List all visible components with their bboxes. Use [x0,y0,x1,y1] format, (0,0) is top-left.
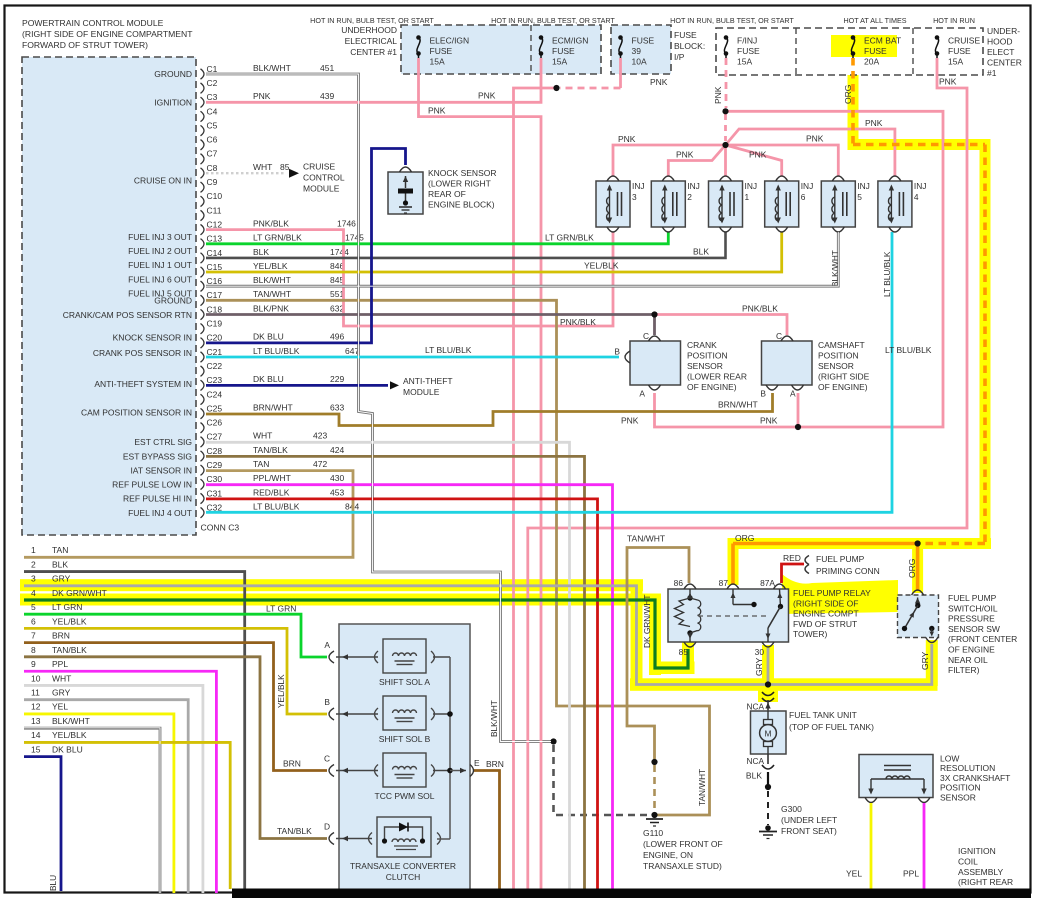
wire C28 TAN/BLK 424 [206,456,585,889]
svg-text:PNK/BLK: PNK/BLK [253,218,289,228]
wire C13 LT GRN/BLK 1745 to INJ2 [206,232,668,244]
svg-text:FUEL PUMP: FUEL PUMP [948,593,997,603]
svg-text:C3: C3 [207,92,218,102]
svg-text:PRESSURE: PRESSURE [948,614,995,624]
svg-text:(RIGHT REAR: (RIGHT REAR [958,877,1013,887]
svg-text:BRN/WHT: BRN/WHT [253,402,293,412]
fuel pump switch / oil pressure sensor [898,595,939,638]
svg-text:KNOCK SENSOR IN: KNOCK SENSOR IN [113,332,192,342]
svg-text:BRN: BRN [283,759,301,769]
bottom black censor bar [232,889,1031,898]
svg-text:C25: C25 [207,403,223,413]
svg-text:(RIGHT SIDE: (RIGHT SIDE [818,372,870,382]
wire C27 WHT 423 [206,442,570,889]
svg-text:C27: C27 [207,432,223,442]
relay coil + resistor [689,589,691,598]
wire C29 TAN 472 to row 1 [24,471,353,558]
svg-text:C19: C19 [207,319,223,329]
svg-text:FUEL TANK UNIT: FUEL TANK UNIT [789,710,857,720]
svg-text:MODULE: MODULE [403,387,440,397]
svg-text:SENSOR SW: SENSOR SW [948,624,1000,634]
svg-text:ANTI-THEFT SYSTEM IN: ANTI-THEFT SYSTEM IN [94,379,192,389]
wire GRY relay pin 30 drop [767,648,770,685]
wire C20 DK BLU 496 to knock sensor [206,149,406,343]
svg-text:NEAR OIL: NEAR OIL [948,655,988,665]
svg-text:INJ: INJ [914,181,927,191]
svg-text:BLK: BLK [693,247,709,257]
svg-text:CENTER #1: CENTER #1 [350,47,397,57]
svg-text:TAN/WHT: TAN/WHT [253,289,291,299]
svg-text:FUEL INJ 3 OUT: FUEL INJ 3 OUT [128,232,192,242]
svg-text:(LOWER FRONT OF: (LOWER FRONT OF [643,839,723,849]
svg-text:453: 453 [330,487,344,497]
solenoid SHIFT SOL A [383,639,426,673]
svg-text:FUSE: FUSE [674,30,697,40]
injector INJ 3 [596,181,630,227]
highlight: ORG dashed path from ECM BAT fuse [848,75,859,150]
svg-text:C16: C16 [207,276,223,286]
svg-text:REF PULSE LOW IN: REF PULSE LOW IN [112,480,192,490]
svg-text:MODULE: MODULE [303,184,340,194]
wire BRN from clutch pin E down [474,771,500,890]
svg-text:POSITION: POSITION [687,351,728,361]
svg-text:PNK: PNK [865,118,883,128]
wire ORG solid to relay 87 and oil switch [733,544,918,592]
svg-text:C29: C29 [207,460,223,470]
svg-text:LT GRN: LT GRN [266,604,296,614]
fuel pump relay [668,589,789,642]
svg-text:EST BYPASS SIG: EST BYPASS SIG [123,451,192,461]
svg-text:C18: C18 [207,304,223,314]
svg-text:PNK: PNK [760,416,778,426]
svg-text:C6: C6 [207,135,218,145]
svg-text:C8: C8 [207,163,218,173]
svg-text:FUEL INJ 4 OUT: FUEL INJ 4 OUT [128,508,192,518]
svg-text:PPL: PPL [52,659,68,669]
wire C21 LT BLU/BLK 647 to crank B [206,356,619,359]
svg-text:GROUND: GROUND [154,69,192,79]
svg-text:OF ENGINE): OF ENGINE) [818,382,868,392]
svg-text:FUSE: FUSE [948,46,971,56]
wire C8 WHT 85 to cruise control module [206,172,286,174]
svg-text:LT BLU/BLK: LT BLU/BLK [885,345,932,355]
svg-text:430: 430 [330,473,344,483]
svg-text:5: 5 [857,192,862,202]
svg-text:6: 6 [31,616,36,626]
svg-text:PNK: PNK [713,86,723,104]
highlight: DK GRN/WHT wire yellow band [20,594,661,606]
injector INJ 1 [709,181,743,227]
svg-text:B: B [614,347,620,357]
svg-text:SENSOR: SENSOR [818,361,854,371]
svg-text:D: D [324,822,330,832]
svg-text:451: 451 [320,63,334,73]
svg-text:15A: 15A [552,57,567,67]
svg-text:IGNITION: IGNITION [154,98,192,108]
svg-text:3: 3 [632,192,637,202]
svg-text:TAN: TAN [253,459,269,469]
highlight: FUEL PUMP RELAY label [782,574,898,614]
svg-text:PNK: PNK [749,150,767,160]
solenoid common bus [449,657,451,839]
wire row 12 YEL [24,714,174,893]
svg-text:LT GRN/BLK: LT GRN/BLK [253,233,302,243]
svg-text:C24: C24 [207,389,223,399]
svg-text:CRANK: CRANK [687,340,717,350]
svg-text:C17: C17 [207,290,223,300]
svg-text:NCA: NCA [746,756,764,766]
wire PNK injector feed bus to crank/cam [655,111,944,427]
svg-text:F/INJ: F/INJ [737,36,757,46]
wire row 2 BLK [24,572,245,889]
svg-text:LOW: LOW [940,754,959,764]
svg-text:FUEL INJ 6 OUT: FUEL INJ 6 OUT [128,274,192,284]
svg-text:YEL/BLK: YEL/BLK [253,261,288,271]
wire PNK to INJ3 [613,145,726,176]
svg-text:PNK: PNK [618,134,636,144]
svg-text:IAT SENSOR IN: IAT SENSOR IN [130,465,192,475]
svg-text:TAN/BLK: TAN/BLK [277,826,312,836]
svg-text:CRUISE: CRUISE [303,162,335,172]
camshaft position sensor [762,341,813,385]
svg-text:YEL: YEL [52,702,68,712]
svg-text:CRANK POS SENSOR IN: CRANK POS SENSOR IN [93,348,192,358]
wire C3 PNK 439 to ECM/IGN fuse [206,58,541,102]
powertrain control module PCM box [22,57,196,535]
svg-text:CONTROL: CONTROL [303,173,345,183]
svg-text:E: E [474,758,480,768]
clutch pin E to BRN [450,770,466,772]
svg-text:BLOCK:: BLOCK: [674,41,705,51]
wire PNK cam A drop [797,393,800,427]
svg-text:REAR OF: REAR OF [428,189,466,199]
svg-text:LT BLU/BLK: LT BLU/BLK [882,251,892,297]
wire C30 PPL/WHT 430 [206,485,613,889]
svg-text:HOT AT ALL TIMES: HOT AT ALL TIMES [843,16,906,25]
svg-text:ENGINE BLOCK): ENGINE BLOCK) [428,200,495,210]
svg-text:C4: C4 [207,106,218,116]
highlight: GRY wire yellow band [20,579,643,591]
svg-text:HOT IN RUN, BULB TEST, OR STAR: HOT IN RUN, BULB TEST, OR START [670,16,794,25]
wire row 8 TAN/BLK to converter clutch [24,657,327,839]
svg-text:PNK: PNK [939,77,957,87]
PCM connector pins C1-C32 [201,69,205,79]
wire BLK/WHT dashed to G110 [552,745,555,812]
svg-text:472: 472 [313,459,327,469]
svg-text:DK BLU: DK BLU [253,332,284,342]
crank position sensor [630,341,681,385]
svg-text:YEL/BLK: YEL/BLK [52,730,87,740]
svg-text:1746: 1746 [337,218,356,228]
relay contacts [732,589,734,605]
svg-text:LT GRN/BLK: LT GRN/BLK [545,233,594,243]
svg-text:CRANK/CAM POS SENSOR RTN: CRANK/CAM POS SENSOR RTN [63,310,192,320]
wire C25 BRN/WHT 633 to cam B [206,393,773,426]
svg-text:30: 30 [755,647,765,657]
svg-text:FUEL INJ 1 OUT: FUEL INJ 1 OUT [128,260,192,270]
svg-text:RED/BLK: RED/BLK [253,487,290,497]
wire row 5 LT GRN to shift sol A [24,614,327,657]
svg-text:POWERTRAIN CONTROL MODULE: POWERTRAIN CONTROL MODULE [22,18,164,28]
svg-text:LT BLU/BLK: LT BLU/BLK [425,345,472,355]
wire C1 BLK/WHT 451 PCM ground to G110 [206,74,551,742]
svg-text:FUEL PUMP: FUEL PUMP [816,554,865,564]
svg-text:LT BLU/BLK: LT BLU/BLK [253,501,300,511]
svg-text:OF ENGINE): OF ENGINE) [687,382,737,392]
svg-text:RED: RED [783,553,801,563]
svg-text:ORG: ORG [843,85,853,104]
svg-text:BLK/WHT: BLK/WHT [253,63,291,73]
svg-text:10A: 10A [632,57,647,67]
svg-text:INJ: INJ [745,181,758,191]
svg-text:14: 14 [31,730,41,740]
svg-text:TOWER): TOWER) [793,629,827,639]
svg-text:WHT: WHT [253,162,272,172]
svg-text:13: 13 [31,716,41,726]
svg-text:A: A [324,640,330,650]
svg-text:(UNDER LEFT: (UNDER LEFT [781,815,837,825]
svg-text:10: 10 [31,673,41,683]
fuse box: underhood electrical center #1 (ELEC/IGN + ECM/IGN) [401,25,601,74]
svg-text:FUEL INJ 2 OUT: FUEL INJ 2 OUT [128,246,192,256]
svg-text:8: 8 [31,645,36,655]
wire row 6 YEL/BLK to shift sol B [24,628,327,714]
white core stripes for BLK/WHT wires [206,74,551,742]
svg-text:INJ: INJ [687,181,700,191]
svg-text:BLK: BLK [746,771,762,781]
wire row 11 GRY [24,700,188,893]
svg-text:CONN C3: CONN C3 [201,523,240,533]
wire PPL from sensor [923,803,926,891]
injector INJ 2 [651,181,685,227]
svg-text:KNOCK SENSOR: KNOCK SENSOR [428,168,497,178]
svg-text:ELECTRICAL: ELECTRICAL [345,36,398,46]
svg-text:TCC PWM SOL: TCC PWM SOL [375,791,435,801]
svg-text:A: A [790,389,796,399]
svg-text:C9: C9 [207,177,218,187]
svg-text:(RIGHT SIDE OF: (RIGHT SIDE OF [793,598,859,608]
svg-text:M: M [765,729,772,739]
wire C31 RED/BLK 453 [206,499,598,889]
svg-text:GRY: GRY [754,657,764,676]
wire row 15 DK BLU [24,757,61,891]
svg-text:86: 86 [674,578,684,588]
wire C14 BLK 1744 to INJ1 [206,232,726,258]
highlight: ECM BAT FUSE [831,35,897,57]
svg-text:YEL/BLK: YEL/BLK [276,674,286,708]
svg-text:4: 4 [31,588,36,598]
svg-text:TAN: TAN [52,545,68,555]
wire PNK/BLK to cam C [655,315,788,336]
svg-text:LT BLU/BLK: LT BLU/BLK [253,346,300,356]
svg-text:ENGINE COMPT: ENGINE COMPT [793,609,859,619]
svg-text:HOT IN RUN, BULB TEST, OR STAR: HOT IN RUN, BULB TEST, OR START [310,16,434,25]
fuse ELEC/IGN symbol [417,38,420,54]
ground G110 [651,812,657,818]
svg-text:ECM BAT: ECM BAT [864,36,901,46]
svg-text:ORG: ORG [735,533,754,543]
svg-text:(RIGHT SIDE OF ENGINE COMPARTM: (RIGHT SIDE OF ENGINE COMPARTMENT [22,29,193,39]
svg-text:ASSEMBLY: ASSEMBLY [958,867,1004,877]
svg-text:1: 1 [31,545,36,555]
svg-text:PNK: PNK [621,416,639,426]
svg-text:UNDER-: UNDER- [987,26,1020,36]
wire C16 BLK/WHT 845 to INJ5 [206,232,838,286]
fuse CRUISE symbol [935,38,938,54]
svg-text:POSITION: POSITION [818,351,859,361]
svg-text:CLUTCH: CLUTCH [386,872,420,882]
svg-text:39: 39 [632,46,642,56]
svg-text:FUSE: FUSE [737,46,760,56]
svg-text:BLK/PNK: BLK/PNK [253,303,289,313]
svg-text:C: C [324,754,330,764]
svg-text:PNK: PNK [676,150,694,160]
svg-text:PNK: PNK [478,91,496,101]
wire PNK from fuse39 node down [514,88,557,889]
wire FUSE39 PNK dashed [619,58,622,88]
svg-text:RESOLUTION: RESOLUTION [940,763,995,773]
svg-text:1745: 1745 [345,233,364,243]
svg-text:11: 11 [31,688,40,698]
svg-text:C31: C31 [207,488,223,498]
wire C18 BLK/PNK 632 to crank C [206,315,655,336]
svg-text:PPL: PPL [903,869,919,879]
svg-text:IGNITION: IGNITION [958,846,996,856]
svg-text:C26: C26 [207,418,223,428]
solenoid SHIFT SOL B [383,696,426,730]
wire PNK to INJ5 [726,145,839,176]
fuse ECM/IGN symbol [539,38,542,54]
svg-text:2: 2 [31,559,36,569]
highlight: ORG solid path to relay 87 and switch [728,538,918,549]
svg-text:TAN/WHT: TAN/WHT [697,769,707,806]
wire PNK to INJ2 [668,145,725,176]
svg-text:#1: #1 [987,68,997,78]
wire C23 DK BLU 229 to anti-theft [206,384,388,387]
svg-text:DK BLU: DK BLU [253,374,284,384]
svg-text:PNK: PNK [806,134,824,144]
svg-text:PNK: PNK [650,77,668,87]
svg-text:PNK: PNK [428,106,446,116]
injector INJ 6 [765,181,799,227]
svg-text:3: 3 [31,574,36,584]
svg-text:439: 439 [320,91,334,101]
svg-text:WHT: WHT [52,673,71,683]
svg-text:WHT: WHT [253,431,272,441]
wire PNK to INJ6 [726,145,782,176]
svg-text:YEL: YEL [846,869,862,879]
svg-text:4: 4 [914,192,919,202]
svg-text:BLU: BLU [48,875,58,891]
svg-text:496: 496 [330,332,344,342]
svg-text:C28: C28 [207,446,223,456]
injector INJ 5 [821,181,855,227]
solenoid TCC PWM SOL [383,753,426,787]
svg-text:BLK/WHT: BLK/WHT [253,275,291,285]
svg-text:ENGINE, ON: ENGINE, ON [643,850,693,860]
svg-text:15A: 15A [737,57,752,67]
wire row 10 WHT [24,685,203,893]
svg-text:BLK: BLK [253,247,269,257]
svg-text:UNDERHOOD: UNDERHOOD [341,25,397,35]
svg-text:CENTER: CENTER [987,58,1022,68]
svg-text:87A: 87A [760,578,775,588]
wire row 7 BRN to TCC PWM sol [24,643,327,771]
svg-text:C20: C20 [207,333,223,343]
svg-text:1: 1 [745,192,750,202]
svg-text:ELEC/IGN: ELEC/IGN [430,36,470,46]
svg-text:BRN: BRN [486,759,504,769]
ground G300 [765,825,771,831]
wire CRUISE fuse PNK loop [528,58,967,889]
svg-text:GROUND: GROUND [154,296,192,306]
svg-text:C30: C30 [207,474,223,484]
fuse box: underhood elect center (F/INJ, ECM BAT, CRUISE) [716,28,983,75]
svg-text:TAN/BLK: TAN/BLK [52,645,87,655]
svg-text:C22: C22 [207,361,223,371]
svg-text:PNK/BLK: PNK/BLK [742,304,778,314]
svg-text:FUEL PUMP RELAY: FUEL PUMP RELAY [793,588,871,598]
fuse box: FUSE 39 [611,25,671,74]
svg-text:(LOWER REAR: (LOWER REAR [687,372,747,382]
svg-text:FUSE: FUSE [430,46,453,56]
wire PNK to INJ4 [726,129,895,176]
knock sensor [388,172,423,214]
svg-text:CRUISE ON IN: CRUISE ON IN [134,175,192,185]
svg-text:3X CRANKSHAFT: 3X CRANKSHAFT [940,773,1010,783]
svg-text:C: C [643,331,649,341]
svg-text:HOT IN RUN: HOT IN RUN [933,16,975,25]
wire RED fuel pump priming [782,564,805,583]
svg-text:C13: C13 [207,234,223,244]
wire row 4 DK GRN/WHT to relay 85 [24,600,688,668]
svg-text:GRY: GRY [52,688,71,698]
wire F/INJ fuse PNK dashed to node [725,58,728,108]
wire PNK to INJ1 [724,145,727,176]
svg-text:INJ: INJ [632,181,645,191]
svg-text:BRN/WHT: BRN/WHT [718,400,758,410]
svg-text:EST CTRL SIG: EST CTRL SIG [134,437,192,447]
low resolution 3x crankshaft position sensor [859,755,933,798]
svg-text:FUSE: FUSE [552,46,575,56]
svg-text:INJ: INJ [857,181,870,191]
svg-text:15: 15 [31,744,41,754]
svg-text:BLK: BLK [52,559,68,569]
svg-text:(LOWER RIGHT: (LOWER RIGHT [428,179,491,189]
svg-text:PNK: PNK [253,91,271,101]
svg-text:SENSOR: SENSOR [687,361,723,371]
svg-text:C10: C10 [207,191,223,201]
wire C12 PNK/BLK 1746 to INJ3 [206,230,613,326]
wire row 13 BLK/WHT [24,728,160,893]
svg-text:C14: C14 [207,248,223,258]
svg-text:20A: 20A [864,57,879,67]
svg-text:A: A [639,389,645,399]
svg-text:C: C [776,331,782,341]
svg-text:HOT IN RUN, BULB TEST, OR STAR: HOT IN RUN, BULB TEST, OR START [491,16,615,25]
svg-text:POSITION: POSITION [940,783,981,793]
svg-text:(FRONT CENTER: (FRONT CENTER [948,634,1017,644]
wire YEL from sensor [870,803,873,891]
svg-text:B: B [324,697,330,707]
svg-text:FRONT SEAT): FRONT SEAT) [781,826,837,836]
svg-text:423: 423 [313,431,327,441]
svg-text:BLK/WHT: BLK/WHT [489,700,499,737]
ground (knock sensor) [399,206,412,208]
wire row 3 GRY to relay 30 / oil switch [24,586,932,685]
svg-text:CRUISE: CRUISE [948,36,980,46]
svg-text:229: 229 [330,374,344,384]
